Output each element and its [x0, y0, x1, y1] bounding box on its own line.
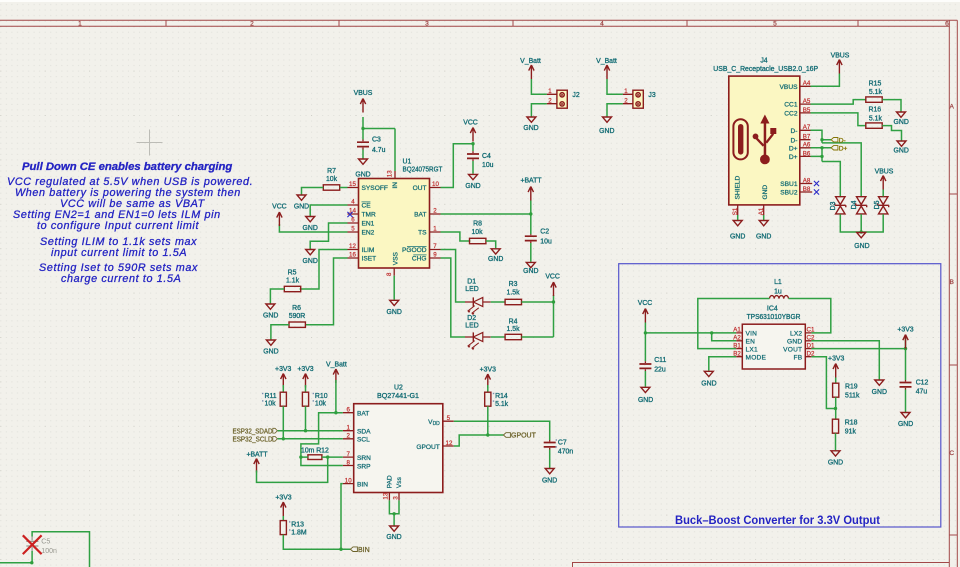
- global label ESP32_SDAD: [233, 428, 278, 435]
- J4 bottom pin stubs: [738, 205, 764, 215]
- svg-text:MODE: MODE: [746, 354, 767, 361]
- svg-text:VBUS: VBUS: [354, 90, 373, 97]
- IC4 pin numbers: [733, 327, 815, 358]
- capacitor C5 (DNP grey): [26, 537, 57, 556]
- svg-text:GND: GND: [854, 243, 869, 250]
- power flag VCC at C4: [463, 120, 478, 142]
- svg-text:input current limit to 1.5A: input current limit to 1.5A: [51, 247, 187, 259]
- svg-text:CC2: CC2: [784, 111, 798, 118]
- svg-text:R10: R10: [315, 393, 328, 400]
- svg-text:10m: 10m: [301, 448, 315, 455]
- U1 pin numbers: [349, 170, 439, 276]
- junction R12 right: [326, 455, 329, 458]
- svg-text:2: 2: [433, 207, 437, 214]
- svg-text:VCC: VCC: [545, 274, 560, 281]
- wire R7 left to GND: [302, 188, 324, 195]
- svg-text:GND: GND: [263, 313, 278, 320]
- wire CC2 to R16: [811, 113, 866, 126]
- svg-text:SYSOFF: SYSOFF: [362, 185, 388, 192]
- svg-text:A6: A6: [803, 142, 811, 149]
- svg-text:R12: R12: [316, 448, 329, 455]
- junction OUT/C4: [471, 142, 474, 145]
- svg-text:D+: D+: [789, 154, 798, 161]
- global label ESP32_SCLD: [233, 436, 278, 443]
- svg-text:PAD: PAD: [387, 475, 394, 488]
- wire R19 to junction: [835, 397, 837, 419]
- power flag +3V3 at FB divider: [828, 356, 844, 378]
- svg-text:SCL: SCL: [357, 437, 370, 444]
- USB trident icon: [753, 115, 777, 165]
- wire VBUS to D5: [882, 190, 884, 197]
- svg-text:LED: LED: [465, 286, 478, 293]
- wire C11 to GND: [644, 371, 646, 387]
- wire CC1 to R15: [811, 100, 866, 105]
- junction U2 GND: [392, 512, 395, 515]
- svg-text:L1: L1: [774, 279, 782, 286]
- capacitor C3: [357, 137, 386, 155]
- svg-text:GND: GND: [638, 397, 653, 404]
- svg-text:10u: 10u: [482, 162, 494, 169]
- no-connect X at SBU1: [814, 181, 819, 186]
- junction diode GND: [860, 230, 863, 233]
- svg-text:SBU2: SBU2: [780, 190, 798, 197]
- svg-text:C2: C2: [540, 229, 549, 236]
- ground under C12: [898, 413, 913, 429]
- notes text block: [7, 161, 253, 285]
- wire VBUS to C3/IN: [363, 117, 395, 171]
- diode D3: [830, 197, 846, 214]
- svg-text:IN: IN: [392, 182, 399, 189]
- svg-text:GND: GND: [523, 125, 538, 132]
- svg-text:BAT: BAT: [357, 410, 369, 417]
- svg-text:1.1k: 1.1k: [286, 278, 300, 285]
- svg-text:6: 6: [945, 21, 949, 28]
- wire CE to GND: [310, 205, 347, 216]
- svg-text:7: 7: [346, 451, 350, 458]
- resistor R6: [289, 305, 306, 327]
- svg-text:J2: J2: [572, 92, 579, 99]
- wire ISET to R6: [305, 258, 347, 325]
- svg-text:R3: R3: [509, 281, 518, 288]
- wire R15 to GND: [882, 100, 901, 112]
- wire J2 pin1: [531, 79, 547, 94]
- resistor R18: [832, 419, 857, 435]
- inductor L1: [770, 279, 789, 299]
- svg-text:BQ27441-G1: BQ27441-G1: [377, 393, 419, 400]
- svg-text:VBUS: VBUS: [831, 53, 850, 60]
- resistor R4: [505, 319, 521, 340]
- ground at J3: [599, 117, 614, 135]
- wire +3V3 to R11: [282, 385, 284, 393]
- svg-text:R14: R14: [495, 393, 508, 400]
- svg-text:+3V3: +3V3: [297, 366, 313, 373]
- svg-text:VBUS: VBUS: [875, 169, 894, 176]
- wire R6 to GND: [271, 325, 289, 340]
- svg-text:R8: R8: [473, 221, 482, 228]
- power flag V_Batt at J2: [520, 58, 541, 79]
- resistor R3: [505, 281, 521, 305]
- svg-text:D1: D1: [467, 279, 476, 286]
- svg-text:6: 6: [346, 407, 350, 414]
- wire VSS to GND: [393, 276, 395, 300]
- svg-text:10u: 10u: [540, 239, 552, 246]
- svg-text:+3V3: +3V3: [275, 495, 291, 502]
- wire EN1 to GND: [310, 223, 347, 249]
- svg-text:GND: GND: [387, 309, 402, 316]
- svg-text:CE: CE: [362, 203, 372, 210]
- svg-text:R19: R19: [845, 384, 858, 391]
- svg-text:GND: GND: [756, 234, 771, 241]
- resistor R10: [302, 392, 327, 407]
- title block corner: [573, 563, 950, 567]
- svg-text:TPS631010YBGR: TPS631010YBGR: [747, 314, 801, 321]
- wire C2 to GND: [530, 243, 532, 262]
- ground at MODE: [701, 371, 716, 387]
- svg-text:4: 4: [351, 198, 355, 205]
- LED D2: [465, 315, 491, 350]
- IC U2 body: [354, 385, 443, 493]
- svg-text:R7: R7: [327, 168, 336, 175]
- J4 pin numbers: [732, 80, 811, 215]
- wire L1 right to LX2: [789, 299, 831, 333]
- wire VDD to C7: [454, 421, 550, 440]
- ground at R6: [263, 340, 278, 356]
- IC U3 buck-boost body: [742, 306, 805, 370]
- svg-text:D2: D2: [467, 315, 476, 322]
- ground under R18: [828, 451, 843, 467]
- svg-text:D-: D-: [791, 137, 798, 144]
- svg-text:to configure Input current lim: to configure Input current limit: [37, 220, 199, 232]
- svg-text:V_Batt: V_Batt: [326, 362, 347, 369]
- hierarchical label D-: [831, 137, 846, 144]
- svg-text:+BATT: +BATT: [246, 451, 268, 458]
- power flag VCC at EN2: [272, 204, 287, 227]
- junction R11/SCL: [282, 437, 285, 440]
- svg-text:6: 6: [351, 216, 355, 223]
- resistor R15: [866, 80, 883, 102]
- wire EN2 to VCC: [279, 224, 347, 232]
- junction C5: [30, 561, 33, 564]
- ground under C4: [465, 174, 480, 190]
- svg-text:4.7u: 4.7u: [372, 147, 386, 154]
- svg-text:3: 3: [392, 496, 399, 500]
- svg-text:D3: D3: [830, 201, 837, 210]
- J4 pin names: [735, 84, 798, 200]
- power flag VBUS at J4: [831, 53, 850, 74]
- svg-text:A: A: [949, 104, 954, 111]
- svg-text:+3V3: +3V3: [828, 356, 844, 363]
- diode D4: [851, 197, 867, 214]
- capacitor C2: [525, 229, 552, 246]
- wire +3V3 to R10: [305, 385, 307, 393]
- svg-text:SRN: SRN: [357, 455, 371, 462]
- svg-text:1: 1: [433, 225, 437, 232]
- junction VCC/R3: [552, 300, 555, 303]
- svg-text:VCC: VCC: [463, 120, 478, 127]
- svg-text:PGOOD: PGOOD: [402, 247, 427, 254]
- svg-text:C: C: [949, 450, 954, 457]
- wire SDA: [278, 430, 343, 432]
- resistor R14: [485, 392, 509, 408]
- svg-text:VBUS: VBUS: [780, 84, 799, 91]
- svg-text:GND: GND: [894, 119, 909, 126]
- svg-text:10k: 10k: [326, 176, 338, 183]
- wire diode commons to GND: [840, 214, 883, 232]
- ground at J4 A1: [756, 221, 771, 241]
- wire L1 left to LX1: [698, 299, 770, 349]
- connector J4 body: [713, 58, 818, 205]
- svg-text:FB: FB: [793, 354, 802, 361]
- hierarchical label BIN: [350, 547, 369, 554]
- svg-text:GND: GND: [386, 534, 401, 541]
- svg-text:EN1: EN1: [362, 221, 375, 228]
- connector J2: [547, 88, 580, 108]
- U2 pin numbers: [345, 407, 453, 500]
- svg-text:10: 10: [345, 477, 352, 484]
- wire PGOOD to D1: [441, 250, 466, 303]
- svg-text:ISET: ISET: [362, 256, 377, 263]
- svg-text:1u: 1u: [774, 289, 782, 296]
- svg-text:GND: GND: [898, 421, 913, 428]
- svg-text:CC1: CC1: [784, 102, 798, 109]
- ground at EN1: [303, 250, 318, 266]
- svg-text:BIN: BIN: [358, 547, 370, 554]
- svg-text:GND: GND: [465, 183, 480, 190]
- wire VOUT to +3V3/C12: [811, 338, 905, 381]
- svg-text:R5: R5: [288, 270, 297, 277]
- no-connect X at TMR: [347, 212, 352, 217]
- U2 right pin stubs: [443, 421, 454, 446]
- junction V_Batt/BAT: [334, 411, 337, 414]
- wire +3V3 to R14: [487, 385, 489, 393]
- svg-text:SDA: SDA: [357, 429, 371, 436]
- wire R16 to GND: [882, 126, 901, 141]
- resistor R8: [470, 221, 486, 244]
- svg-text:A8: A8: [803, 177, 811, 184]
- svg-text:C5: C5: [41, 539, 50, 546]
- ground at R16: [894, 141, 909, 155]
- svg-text:CHG: CHG: [412, 256, 427, 263]
- svg-text:D5: D5: [874, 200, 881, 209]
- svg-text:V_Batt: V_Batt: [596, 58, 617, 65]
- ground at IC4 GND: [872, 380, 887, 396]
- svg-text:BAT: BAT: [414, 212, 426, 219]
- svg-text:13: 13: [383, 492, 390, 499]
- svg-text:C4: C4: [482, 153, 491, 160]
- svg-text:5.1k: 5.1k: [869, 115, 883, 122]
- wire OUT to VCC/C4: [441, 144, 474, 188]
- svg-text:10k: 10k: [315, 401, 327, 408]
- ground at R15: [894, 112, 909, 126]
- svg-text:+3V3: +3V3: [897, 327, 913, 334]
- svg-text:8: 8: [386, 272, 393, 276]
- svg-text:D4: D4: [851, 200, 858, 209]
- svg-text:VIN: VIN: [746, 331, 758, 338]
- power flag +3V3 at VOUT: [897, 327, 913, 349]
- field marks: [262, 393, 557, 531]
- svg-text:GND: GND: [263, 349, 278, 356]
- cursor crosshair: [137, 130, 163, 156]
- resistor R5: [284, 270, 300, 292]
- junction BIN: [339, 548, 342, 551]
- wire GPOUT: [454, 435, 504, 446]
- wire D1 to R3: [491, 301, 506, 303]
- svg-text:2: 2: [624, 98, 628, 105]
- sheet frame top ruler: [0, 20, 957, 28]
- resistor R16: [866, 107, 883, 129]
- U1 bottom pin VSS stub: [393, 268, 395, 276]
- capacitor C4: [467, 151, 494, 169]
- svg-text:LED: LED: [465, 323, 478, 330]
- resistor R7: [323, 168, 339, 190]
- junction D- B7: [820, 138, 823, 141]
- wire C3 to GND: [362, 150, 364, 159]
- svg-text:R16: R16: [868, 107, 881, 114]
- wire D2 to R4: [491, 336, 506, 338]
- wire R18 to GND: [835, 433, 837, 450]
- svg-text:A5: A5: [803, 98, 811, 105]
- svg-text:GND: GND: [355, 172, 370, 179]
- wire D+ bus: [811, 148, 841, 197]
- wire R14 to GPOUT: [487, 406, 489, 435]
- junction VOUT: [904, 347, 907, 350]
- svg-text:+3V3: +3V3: [480, 367, 496, 374]
- svg-text:SHIELD: SHIELD: [735, 175, 742, 199]
- hierarchical label GPOUT: [503, 433, 536, 440]
- wire +BATT to R12 right: [257, 457, 328, 482]
- svg-text:GND: GND: [872, 389, 887, 396]
- wire R8 to GND: [486, 241, 496, 248]
- power flag +3V3 at R10: [297, 366, 313, 387]
- wire R12 right to SRN: [322, 456, 343, 458]
- ground at diodes: [854, 233, 869, 251]
- wire C4 to GND: [472, 161, 474, 174]
- svg-text:J3: J3: [648, 92, 655, 99]
- svg-text:R13: R13: [291, 521, 304, 528]
- IC4 pin names: [746, 331, 803, 362]
- svg-text:GND: GND: [294, 204, 309, 211]
- wire IC4 GND pin: [811, 341, 879, 380]
- power flag V_Batt at J3: [596, 58, 617, 79]
- IC4 right pin stubs: [805, 333, 811, 357]
- wire EN to VIN: [712, 333, 737, 341]
- capacitor C11: [639, 357, 666, 374]
- svg-text:A1: A1: [733, 327, 741, 334]
- IC4 left pin stubs: [736, 333, 742, 357]
- svg-text:1.5k: 1.5k: [506, 290, 520, 297]
- svg-text:5: 5: [447, 415, 451, 422]
- junction EN/VIN: [710, 331, 713, 334]
- J4 right pin stubs: [800, 86, 812, 192]
- svg-text:10k: 10k: [471, 229, 483, 236]
- svg-text:ESP32_SDAD: ESP32_SDAD: [233, 428, 273, 435]
- wire C5 top: [32, 532, 89, 567]
- power flag +BATT: [520, 178, 542, 201]
- svg-text:2: 2: [548, 98, 552, 105]
- ground at SHIELD: [730, 221, 745, 241]
- wire D- bus: [811, 130, 862, 196]
- junction D+ B6: [820, 155, 823, 158]
- svg-text:GND: GND: [787, 338, 802, 345]
- DNP cross at C5: [23, 535, 42, 554]
- wire R4 to VCC vertical: [522, 336, 554, 338]
- svg-text:B1: B1: [733, 342, 741, 349]
- ground under C11: [638, 387, 653, 404]
- svg-text:C3: C3: [372, 137, 381, 144]
- ground under U2: [386, 526, 401, 541]
- svg-text:USB_C_Receptacle_USB2.0_16P: USB_C_Receptacle_USB2.0_16P: [713, 66, 818, 73]
- svg-text:D-: D-: [839, 137, 846, 144]
- svg-text:9: 9: [433, 251, 437, 258]
- svg-text:C12: C12: [916, 380, 929, 387]
- svg-text:VSS: VSS: [392, 252, 399, 266]
- svg-text:ESP32_SCLD: ESP32_SCLD: [233, 437, 273, 444]
- svg-text:GND: GND: [303, 258, 318, 265]
- wire VBUS from A4: [811, 74, 840, 87]
- resistor R13: [280, 521, 307, 537]
- wire CHG to D2: [441, 258, 466, 337]
- wire A1 to GND: [763, 215, 765, 220]
- svg-text:D-: D-: [791, 128, 798, 135]
- wire SCL: [278, 438, 343, 440]
- U2 pin names: [357, 410, 440, 488]
- svg-text:5.1k: 5.1k: [495, 401, 509, 408]
- svg-text:BIN: BIN: [357, 481, 368, 488]
- svg-text:10: 10: [432, 181, 439, 188]
- svg-text:Vss: Vss: [396, 476, 403, 488]
- wire J2 pin2 to GND: [531, 104, 547, 117]
- svg-text:1: 1: [624, 88, 628, 95]
- svg-text:1.8M: 1.8M: [291, 530, 307, 537]
- svg-text:B: B: [949, 279, 954, 286]
- svg-text:16: 16: [349, 251, 356, 258]
- svg-text:ILIM: ILIM: [362, 247, 375, 254]
- U2 left pin stubs: [343, 413, 354, 484]
- svg-text:14: 14: [349, 207, 356, 214]
- svg-text:R6: R6: [292, 305, 301, 312]
- wire R11 to SCL: [282, 406, 284, 439]
- svg-text:GPOUT: GPOUT: [511, 433, 537, 440]
- svg-text:D+: D+: [789, 145, 798, 152]
- capacitor C12: [900, 380, 929, 396]
- svg-text:D+: D+: [839, 146, 848, 153]
- capacitor C7: [544, 440, 574, 456]
- svg-text:15: 15: [349, 181, 356, 188]
- wire R10 to SDA: [305, 406, 307, 431]
- svg-text:VOUT: VOUT: [783, 346, 802, 353]
- svg-text:GND: GND: [828, 460, 843, 467]
- svg-text:8: 8: [346, 459, 350, 466]
- svg-text:V_Batt: V_Batt: [520, 58, 541, 65]
- wire V_Batt to BAT: [335, 380, 337, 413]
- power flag VBUS at D5: [875, 169, 894, 190]
- svg-text:2: 2: [250, 21, 254, 28]
- power flag +3V3 at R14: [480, 367, 496, 388]
- ground at R5: [263, 304, 278, 320]
- svg-text:47u: 47u: [916, 389, 928, 396]
- svg-text:U1: U1: [403, 159, 412, 166]
- svg-text:SRP: SRP: [357, 463, 371, 470]
- svg-text:GND: GND: [523, 268, 538, 275]
- power flag +BATT at R12: [246, 451, 268, 472]
- U1 pin names: [362, 182, 428, 266]
- power flag V_Batt at U2: [326, 362, 347, 384]
- svg-text:R18: R18: [845, 420, 858, 427]
- wire +3V3 to R13: [282, 516, 284, 521]
- junction R10/SDA: [304, 429, 307, 432]
- junction FB: [834, 407, 837, 410]
- junction VCC/C11: [644, 331, 647, 334]
